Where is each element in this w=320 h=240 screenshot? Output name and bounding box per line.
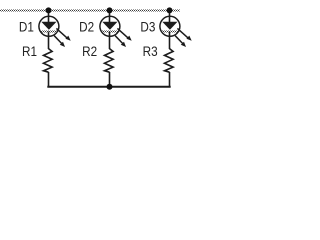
svg-text:R3: R3: [143, 43, 158, 59]
svg-text:D2: D2: [79, 19, 94, 35]
svg-text:D3: D3: [140, 19, 155, 35]
svg-text:R2: R2: [82, 43, 97, 59]
svg-text:D1: D1: [19, 19, 34, 35]
svg-text:R1: R1: [22, 43, 37, 59]
